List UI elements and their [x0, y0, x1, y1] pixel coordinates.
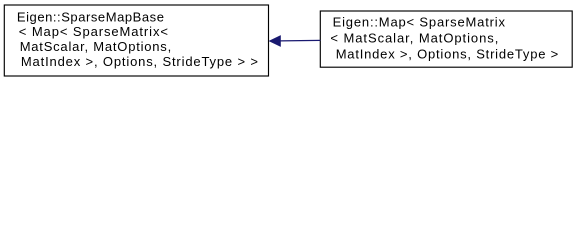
svg-text:Eigen::SparseMapBase: Eigen::SparseMapBase: [17, 9, 165, 24]
svg-text:MatScalar, MatOptions,: MatScalar, MatOptions,: [20, 39, 172, 54]
svg-text:< Map< SparseMatrix<: < Map< SparseMatrix<: [19, 24, 169, 39]
svg-text:MatIndex >, Options, StrideTyp: MatIndex >, Options, StrideType > >: [21, 54, 259, 69]
svg-text:< MatScalar, MatOptions,: < MatScalar, MatOptions,: [330, 30, 499, 45]
svg-text:MatIndex >, Options, StrideTyp: MatIndex >, Options, StrideType >: [336, 46, 559, 61]
svg-text:Eigen::Map< SparseMatrix: Eigen::Map< SparseMatrix: [333, 15, 506, 30]
